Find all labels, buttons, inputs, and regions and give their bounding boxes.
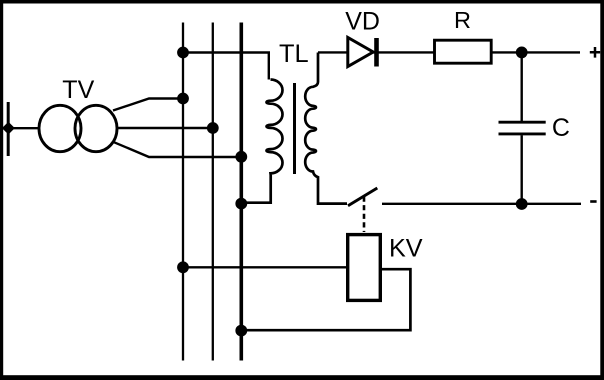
svg-text:KV: KV bbox=[389, 234, 423, 262]
svg-text:R: R bbox=[454, 7, 471, 33]
svg-text:VD: VD bbox=[345, 7, 380, 35]
svg-text:C: C bbox=[552, 114, 570, 142]
svg-text:TL: TL bbox=[279, 40, 309, 68]
svg-text:TV: TV bbox=[62, 76, 94, 104]
